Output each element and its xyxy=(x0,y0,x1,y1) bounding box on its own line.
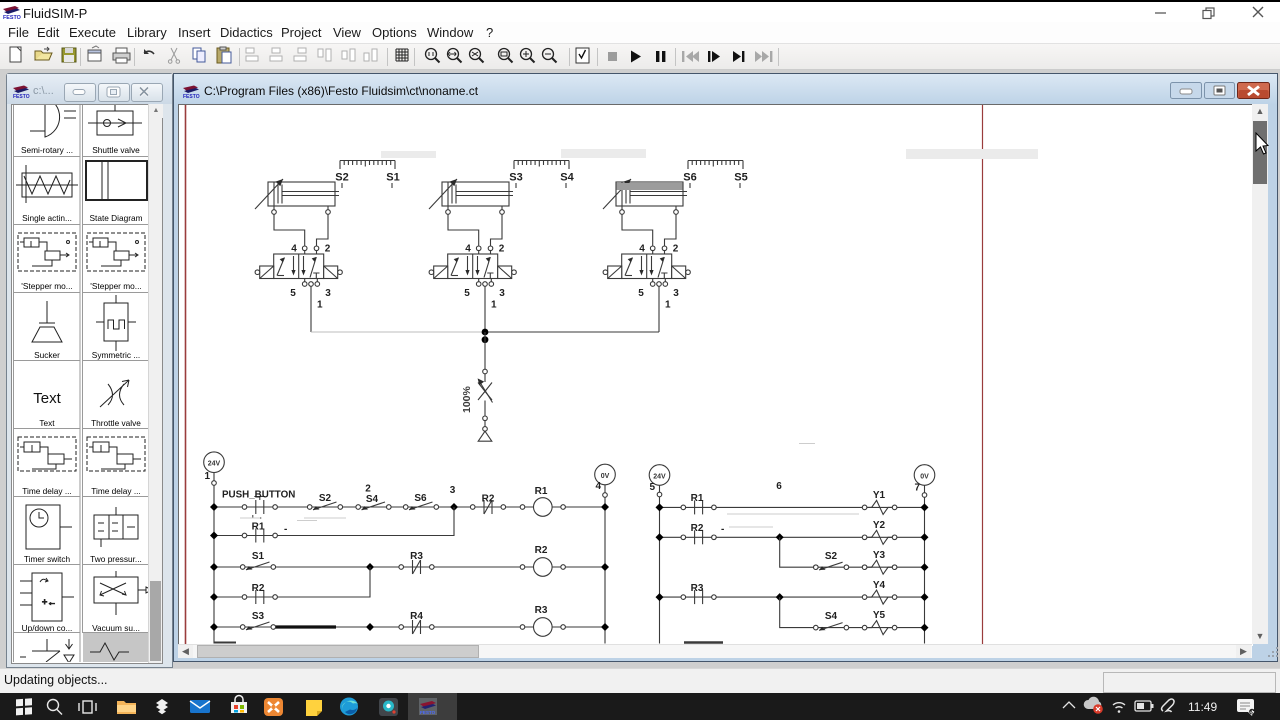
svg-text:S2: S2 xyxy=(335,172,348,184)
grid icon xyxy=(396,49,408,61)
svg-text:1: 1 xyxy=(204,471,210,482)
highlighted wire segment rung5 xyxy=(274,625,336,628)
svg-text:FESTO: FESTO xyxy=(3,15,21,21)
wire valve 1V to supply node (faint) xyxy=(311,331,485,333)
page margin red line left xyxy=(185,105,187,646)
junction node rung3 right xyxy=(601,563,609,571)
pin connector above throttle xyxy=(483,369,488,374)
left bus wire (left ladder) xyxy=(213,473,215,644)
junction rung1 right xyxy=(921,503,929,511)
contact R3 (normally closed) xyxy=(399,560,434,574)
to end xyxy=(733,51,744,62)
paste xyxy=(217,47,231,63)
svg-text:7: 7 xyxy=(914,483,920,494)
junction rung3 right xyxy=(921,563,929,571)
junction rung2 left xyxy=(656,533,664,541)
solenoid Y1 xyxy=(862,500,897,514)
ruler S2/S1 (station 1 distance scale) xyxy=(340,161,395,189)
solenoid Y4 xyxy=(862,590,897,604)
contact R3 (NO) xyxy=(681,590,716,604)
throttle valve 100% xyxy=(478,374,493,416)
svg-text:+←: +← xyxy=(42,597,56,607)
svg-text:S5: S5 xyxy=(734,172,747,184)
partial rung 6 at canvas edge xyxy=(214,642,236,644)
svg-text:'Stepper mo...: 'Stepper mo... xyxy=(90,281,141,291)
junction rung4 left xyxy=(656,593,664,601)
svg-text:6: 6 xyxy=(776,481,782,492)
svg-text:S4: S4 xyxy=(825,611,838,622)
relay coil R3 xyxy=(520,618,565,637)
ruler S6/S5 (station 3 distance scale) xyxy=(688,161,743,189)
svg-text:'Stepper mo...: 'Stepper mo... xyxy=(21,281,72,291)
wire valve 1V port 1 down xyxy=(310,291,312,332)
svg-text:FESTO: FESTO xyxy=(13,94,30,100)
ruler S3/S4 (station 2 distance scale) xyxy=(514,161,569,189)
switch S4 (right ladder) xyxy=(814,623,849,631)
switch S2 (right ladder) xyxy=(814,562,849,570)
svg-text:Single actin...: Single actin... xyxy=(22,213,72,223)
junction node rung5 right xyxy=(601,623,609,631)
solenoid Y2 xyxy=(862,530,897,544)
pause xyxy=(656,51,665,62)
switch S6 (limit switch NO) xyxy=(403,502,438,510)
pin connector right bus right ladder xyxy=(922,493,927,498)
open xyxy=(35,47,52,60)
svg-text:S6: S6 xyxy=(683,172,696,184)
window-new xyxy=(88,46,101,61)
contact R1 (NO) xyxy=(681,500,716,514)
junction node rung1 left xyxy=(210,503,218,511)
rung 4 wire with riser xyxy=(214,567,370,597)
svg-text:S2: S2 xyxy=(825,551,838,562)
svg-text:R1: R1 xyxy=(252,522,265,533)
wire cylinder 3A to valve 3V xyxy=(622,214,676,246)
svg-text:R2: R2 xyxy=(691,523,704,534)
solenoid Y5 xyxy=(862,621,897,635)
left bus wire (right ladder) xyxy=(659,485,661,643)
svg-text:0V: 0V xyxy=(920,473,929,480)
pin connector below throttle xyxy=(483,416,488,421)
rung 5 branch wire with riser xyxy=(780,597,925,628)
page margin red line right xyxy=(982,105,984,646)
svg-text:Semi-rotary ...: Semi-rotary ... xyxy=(21,145,73,155)
contact R4 (normally closed) xyxy=(399,620,434,634)
valve 1V (5/2-way impulse valve, ports 1-5) xyxy=(255,244,342,311)
save xyxy=(62,48,76,62)
switch S3 (limit switch NO) xyxy=(240,622,275,630)
svg-text:R3: R3 xyxy=(410,551,423,562)
svg-text:Y1: Y1 xyxy=(873,490,886,501)
junction rung2 mid xyxy=(776,533,784,541)
rung 1 wire xyxy=(214,506,605,508)
24V supply right ladder xyxy=(649,465,670,486)
svg-text:R2: R2 xyxy=(252,583,265,594)
svg-text:Sucker: Sucker xyxy=(34,350,60,360)
junction node rung2 left xyxy=(210,532,218,540)
stop xyxy=(608,52,617,61)
svg-text:S3: S3 xyxy=(509,172,522,184)
contact R2 (normally open, latch) xyxy=(242,590,277,604)
svg-text:24V: 24V xyxy=(208,461,221,468)
pin connector right bus xyxy=(603,493,608,498)
svg-text:Time delay ...: Time delay ... xyxy=(22,486,72,496)
cut xyxy=(168,48,179,63)
svg-text:R2: R2 xyxy=(482,494,495,505)
svg-text:R3: R3 xyxy=(535,605,548,616)
rewind xyxy=(682,51,699,62)
svg-text:State Diagram: State Diagram xyxy=(89,213,142,223)
svg-text:FESTO: FESTO xyxy=(183,94,200,100)
junction node rung3 left xyxy=(210,563,218,571)
junction node rung1 right xyxy=(601,503,609,511)
junction node supply lower xyxy=(482,336,489,343)
play xyxy=(631,51,641,63)
right bus wire (right ladder) xyxy=(924,485,926,643)
rung 1 wire (right ladder) xyxy=(660,506,925,508)
junction rung4 right xyxy=(921,593,929,601)
wire supply node to throttle xyxy=(484,332,486,369)
push button PUSH_BUTTON (NO) xyxy=(242,497,277,519)
junction rung1 left xyxy=(656,503,664,511)
rung 3 wire xyxy=(214,566,605,568)
svg-text:2: 2 xyxy=(365,484,371,495)
svg-text:Throttle valve: Throttle valve xyxy=(91,418,141,428)
24V supply left ladder xyxy=(204,452,225,473)
rung 2 wire (right ladder) xyxy=(660,536,925,538)
copy xyxy=(193,48,205,62)
solenoid Y3 xyxy=(862,560,897,574)
ffwd xyxy=(755,51,772,62)
wire valve 3V to supply node xyxy=(485,331,659,333)
svg-text:S2: S2 xyxy=(319,493,332,504)
wire cylinder 2A to valve 2V xyxy=(448,214,502,246)
0V supply left ladder xyxy=(595,464,616,485)
pin connector left bus right ladder xyxy=(657,492,662,497)
svg-text:Y3: Y3 xyxy=(873,550,886,561)
svg-text:Y4: Y4 xyxy=(873,580,886,591)
svg-text:FESTO: FESTO xyxy=(420,710,436,715)
svg-text:S1: S1 xyxy=(386,172,399,184)
junction node rung4 left xyxy=(210,593,218,601)
svg-text:R2: R2 xyxy=(535,545,548,556)
cylinder 1A (double-acting, station 1) xyxy=(255,179,339,214)
relay coil R2 xyxy=(520,558,565,577)
contact R2 (normally closed) xyxy=(470,500,505,514)
svg-text:100%: 100% xyxy=(461,385,473,413)
zoom icons xyxy=(426,49,557,63)
svg-text:Timer switch: Timer switch xyxy=(24,554,71,564)
svg-text:R4: R4 xyxy=(410,611,423,622)
svg-text:24V: 24V xyxy=(653,473,666,480)
svg-text:Text: Text xyxy=(33,390,61,407)
partial rung 6 right ladder xyxy=(684,641,723,643)
svg-text:S1: S1 xyxy=(252,551,265,562)
switch S4 (limit switch NO) xyxy=(356,502,391,510)
svg-text:Y2: Y2 xyxy=(873,520,886,531)
svg-text:Shuttle valve: Shuttle valve xyxy=(92,145,140,155)
junction rung4 mid xyxy=(776,593,784,601)
valve 2V (5/2-way impulse valve, ports 1-5) xyxy=(429,244,516,311)
svg-text:S6: S6 xyxy=(414,493,427,504)
svg-text:R3: R3 xyxy=(691,583,704,594)
svg-text:0V: 0V xyxy=(601,473,610,480)
wire cylinder 1A to valve 1V xyxy=(274,214,328,246)
junction rung2 right xyxy=(921,533,929,541)
ghost artifact lines xyxy=(240,444,859,528)
rung 2 wire with riser to node 3 xyxy=(214,507,454,536)
svg-text:PUSH_BUTTON: PUSH_BUTTON xyxy=(222,490,295,501)
valve 3V (5/2-way impulse valve, ports 1-5) xyxy=(603,244,690,311)
undo xyxy=(144,49,154,54)
pin connector at source xyxy=(483,427,488,432)
junction node rung3 mid xyxy=(366,563,374,571)
junction node supply T xyxy=(482,329,489,336)
svg-text:Up/down co...: Up/down co... xyxy=(22,623,73,633)
svg-text:Two pressur...: Two pressur... xyxy=(90,554,142,564)
checkbox icon xyxy=(576,48,589,63)
svg-text:Text: Text xyxy=(39,418,55,428)
svg-text:S4: S4 xyxy=(366,494,379,505)
compressed air source triangle xyxy=(478,431,492,441)
svg-text:Time delay ...: Time delay ... xyxy=(91,486,141,496)
svg-text:4: 4 xyxy=(595,481,601,492)
wire throttle to source xyxy=(484,421,486,427)
pin connector left bus xyxy=(212,481,217,486)
switch S2 (limit switch NO) xyxy=(307,502,342,510)
rung 3 branch wire with riser xyxy=(780,537,925,567)
align icons (greyed) xyxy=(246,48,377,61)
junction node 3 xyxy=(450,503,458,511)
svg-text:Y5: Y5 xyxy=(873,610,886,621)
svg-text:3: 3 xyxy=(450,485,456,496)
junction node rung5 left xyxy=(210,623,218,631)
0V supply right ladder xyxy=(914,465,935,486)
svg-text:Symmetric ...: Symmetric ... xyxy=(92,350,140,360)
wire valve 3V port 1 down xyxy=(658,291,660,332)
svg-text:R1: R1 xyxy=(535,486,548,497)
cylinder 2A (double-acting, station 2) xyxy=(429,179,513,214)
svg-text:-: - xyxy=(721,524,724,535)
rung 4 wire (right ladder) xyxy=(660,596,925,598)
contact R2 (NO) xyxy=(681,530,716,544)
svg-text:S3: S3 xyxy=(252,611,265,622)
contact R1 (normally open, latch) xyxy=(242,529,277,543)
print xyxy=(113,48,130,63)
rung 5 wire xyxy=(214,626,605,628)
junction rung5 right xyxy=(921,624,929,632)
new xyxy=(10,47,21,62)
svg-text:R1: R1 xyxy=(691,493,704,504)
relay coil R1 xyxy=(520,498,565,517)
wire valve 2V port 1 down to supply node xyxy=(484,291,486,332)
step xyxy=(708,51,720,62)
svg-text:S4: S4 xyxy=(560,172,574,184)
cylinder 3A (double-acting, station 3, highlighted) xyxy=(603,179,687,214)
switch S1 (limit switch NO) xyxy=(240,562,275,570)
svg-text:-: - xyxy=(284,524,287,535)
svg-text:5: 5 xyxy=(649,482,655,493)
junction node rung5 mid xyxy=(366,623,374,631)
right bus wire (left ladder) xyxy=(604,485,606,644)
svg-text:Vacuum su...: Vacuum su... xyxy=(92,623,140,633)
